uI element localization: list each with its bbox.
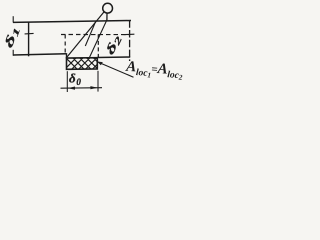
weld nugget outline xyxy=(67,58,98,70)
bottom edge left end serif xyxy=(12,50,14,56)
dimension tick delta2 xyxy=(125,33,134,35)
dimension arrow right (points right) xyxy=(90,86,97,89)
leader line B1 (short slant) xyxy=(85,21,96,46)
top edge left end serif xyxy=(12,16,14,22)
dimension arrow left (points left) xyxy=(68,87,75,90)
extension line left (nugget width) xyxy=(66,71,68,92)
left sheet step down to nugget xyxy=(66,53,68,58)
hidden nugget right edge (dashed vertical) xyxy=(97,34,99,57)
paper background xyxy=(0,0,183,101)
leader line A: circle to nugget left corner xyxy=(66,12,104,58)
nugget crosshatch xyxy=(58,50,123,76)
right sheet top edge xyxy=(97,56,130,59)
leader line B2: stub to nugget top xyxy=(90,20,107,58)
left sheet left edge / dimension line delta1 xyxy=(28,22,30,57)
dimension line delta0 xyxy=(61,87,103,90)
hidden nugget left edge (dashed vertical) xyxy=(64,35,66,54)
leader line to text A_loc xyxy=(98,62,134,77)
upper sheet top edge xyxy=(13,21,131,23)
circle stub xyxy=(106,13,108,20)
spot weld circle symbol xyxy=(103,3,113,13)
leader arrowhead at nugget edge xyxy=(97,62,103,66)
left sheet bottom edge xyxy=(13,54,67,55)
hidden sheet interface line (dashed) xyxy=(61,34,130,36)
right dimension line delta2 (dashed vertical) xyxy=(129,20,131,61)
extension line right (nugget width) xyxy=(97,71,99,92)
dimension tick delta1 xyxy=(25,32,34,35)
